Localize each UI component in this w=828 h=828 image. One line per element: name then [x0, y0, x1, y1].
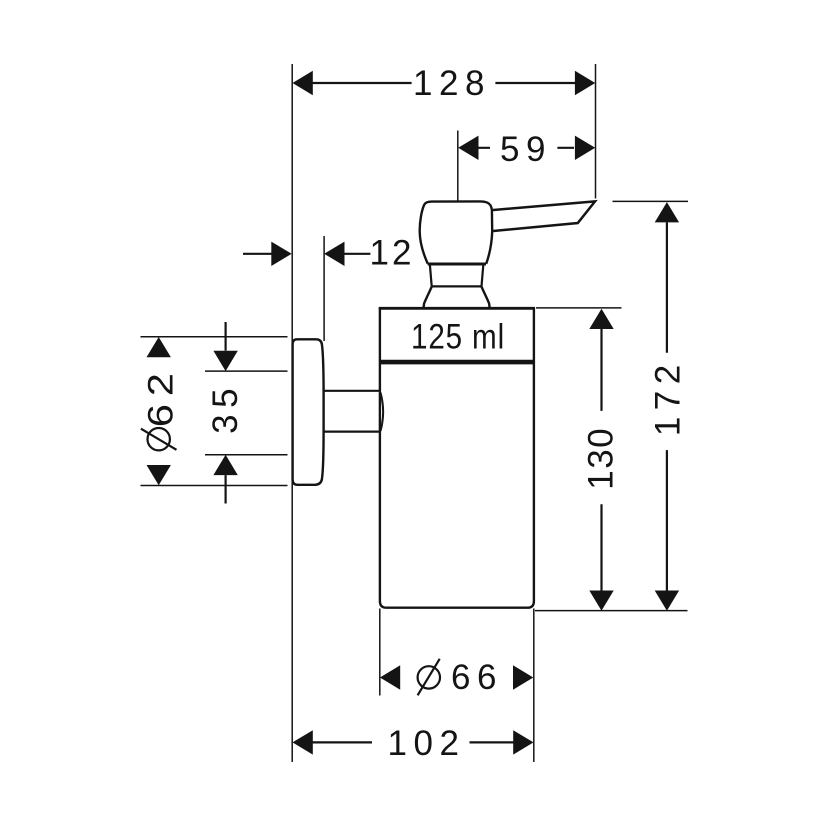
dimension 12 right-pointing arrow	[271, 242, 291, 266]
svg-text:66: 66	[451, 658, 503, 697]
svg-text:172: 172	[649, 358, 688, 436]
svg-text:128: 128	[413, 64, 491, 103]
dimension 130 bottom arrow	[589, 591, 613, 611]
svg-text:35: 35	[206, 382, 245, 434]
extension line dia62 bottom	[141, 485, 288, 487]
pump neck sides	[430, 265, 483, 287]
extension line 35 bottom	[205, 454, 288, 456]
bottle body	[380, 308, 534, 607]
pump knob bottom edge	[428, 263, 486, 266]
extension line dia62 top	[141, 336, 288, 338]
extension line plate front face	[323, 236, 325, 341]
bottle collar top edge	[379, 307, 535, 310]
svg-text:102: 102	[388, 724, 466, 763]
dimension 172 top arrow	[655, 202, 679, 222]
svg-text:62: 62	[142, 365, 181, 427]
dia62 diameter symbol	[148, 428, 170, 450]
dimension 59 line segments	[478, 147, 574, 149]
dia66 diameter symbol	[418, 666, 440, 688]
extension line spout top right	[613, 200, 689, 202]
pump lever / spout	[492, 201, 595, 231]
dimension 128 line segments	[312, 82, 575, 84]
extension line bottle left lower	[379, 609, 381, 696]
extension line bottom baseline	[535, 610, 688, 612]
dimension 130 line segments	[600, 329, 602, 591]
dimension 35 bottom arrow	[213, 455, 237, 475]
pump flare right	[482, 287, 490, 308]
dimension 128 right arrow	[575, 71, 595, 95]
bottle thick band	[380, 360, 534, 365]
dimension 12 leader lines	[243, 253, 370, 255]
dimension 172 bottom arrow	[655, 591, 679, 611]
dimension 35 leader lines	[225, 322, 227, 504]
svg-text:59: 59	[500, 130, 552, 169]
pump neck divider	[432, 285, 482, 287]
dimension 130 top arrow	[589, 309, 613, 329]
dimension 59 right arrow	[575, 136, 595, 160]
dimension 128 left arrow	[293, 71, 313, 95]
extension line bottle right lower	[533, 609, 535, 763]
holder boss curve on bottle	[381, 393, 384, 432]
dimension 12 left-pointing arrow	[324, 242, 344, 266]
dimension 102 right arrow	[513, 730, 533, 754]
extension line spout tip right	[595, 64, 597, 199]
pump flare left	[424, 287, 432, 308]
extension line wall (left vertical reference)	[291, 64, 293, 762]
holder arm top	[324, 390, 380, 392]
dimension 172 line segments	[666, 222, 668, 590]
svg-text:125 ml: 125 ml	[411, 317, 505, 356]
extension line 35 top	[205, 370, 288, 372]
dimension 102 left arrow	[293, 730, 313, 754]
holder arm bottom	[324, 431, 380, 433]
dimension dia62 top arrow	[147, 337, 171, 357]
pump knob outline	[420, 201, 493, 263]
svg-text:130: 130	[582, 427, 621, 490]
extension line pump center	[457, 131, 459, 202]
dimension dia62 bottom arrow	[147, 465, 171, 485]
dimension 102 line segments	[312, 741, 514, 743]
dimension 59 left arrow	[458, 136, 478, 160]
svg-text:12: 12	[370, 234, 415, 273]
extension line bottle top right	[536, 307, 622, 309]
dimension dia66 right arrow	[513, 665, 533, 689]
dimension dia66 left arrow	[380, 665, 400, 689]
dimension 35 top arrow	[213, 351, 237, 371]
wall plate	[293, 339, 324, 485]
